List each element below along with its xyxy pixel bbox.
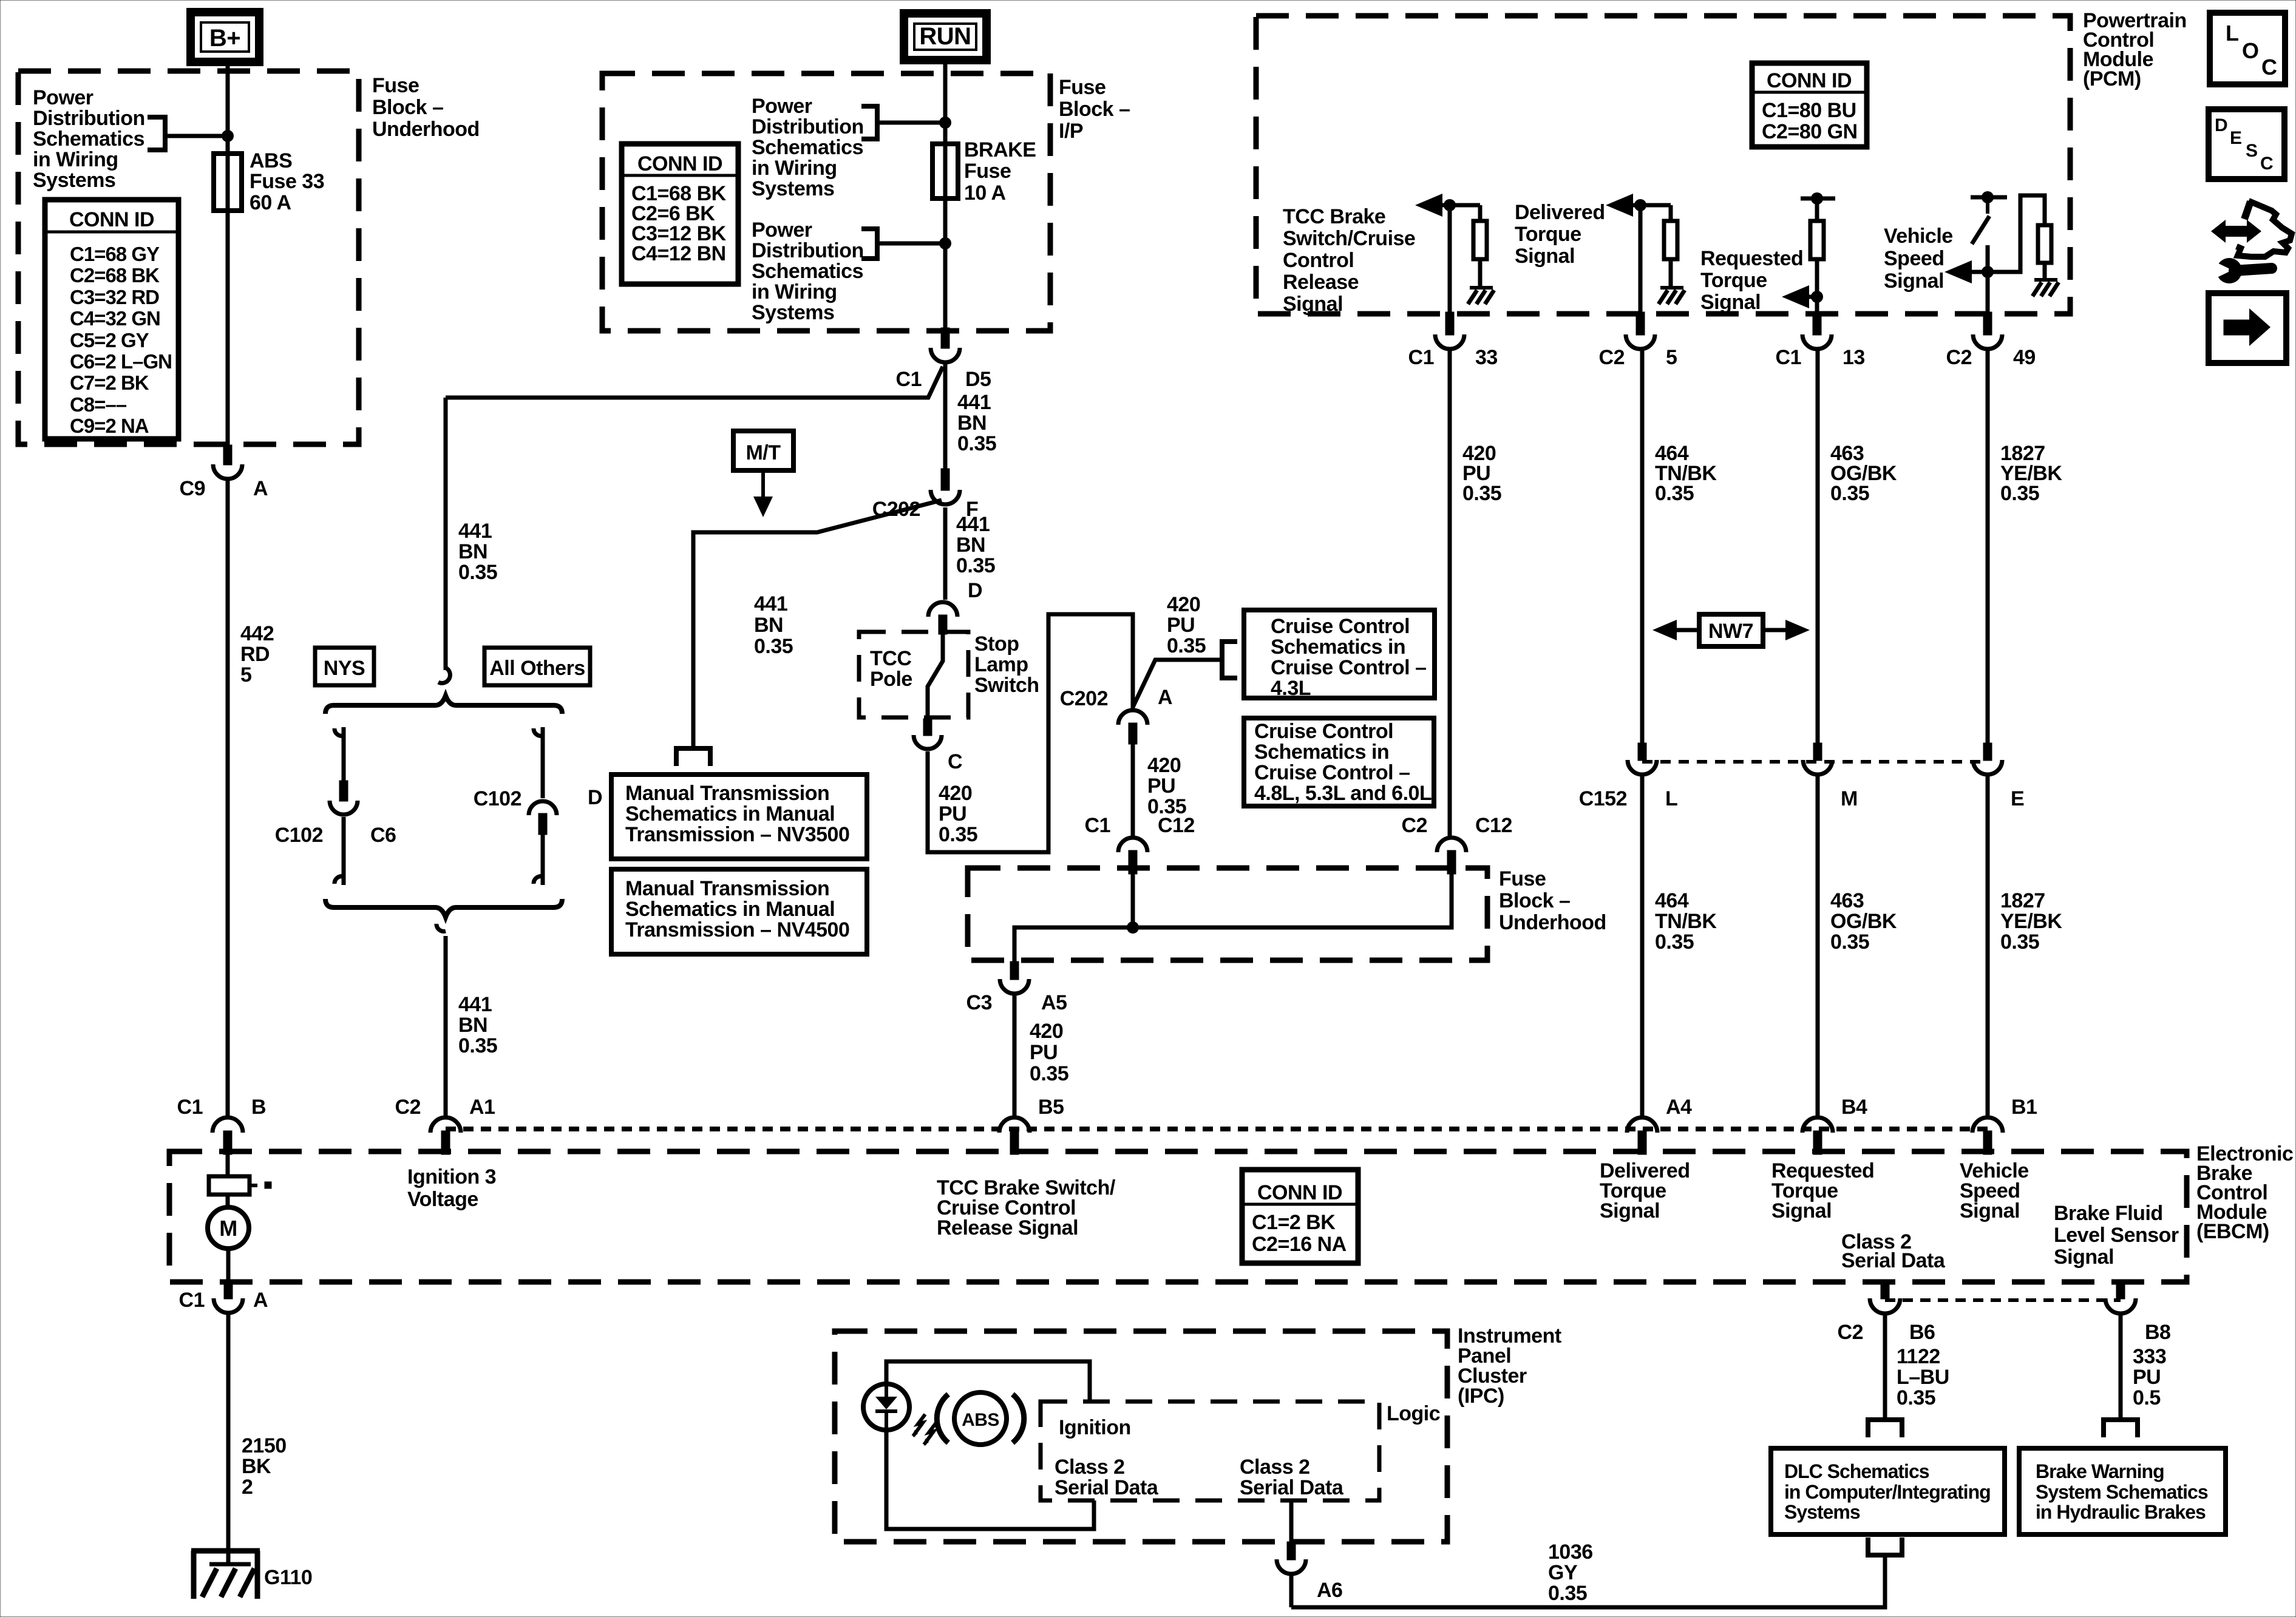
svg-text:BRAKE: BRAKE [964,138,1036,161]
svg-text:in Wiring: in Wiring [33,148,118,171]
svg-text:BN: BN [458,1014,487,1037]
svg-text:D: D [968,579,982,602]
svg-text:420: 420 [1030,1020,1063,1043]
svg-text:2150: 2150 [242,1434,287,1457]
svg-text:4.8L, 5.3L and 6.0L: 4.8L, 5.3L and 6.0L [1254,782,1432,805]
svg-text:Cruise Control –: Cruise Control – [1271,656,1426,679]
bracket to DLC box [1866,1417,1904,1422]
fuse block I/P dashed box [602,73,1050,331]
forward arrow box [2209,293,2286,363]
connector /B8 EBCM bottom [2116,1282,2125,1299]
connector A6 [1287,1542,1296,1560]
connector C1/D5 [941,328,949,348]
IPC indicator loop [886,1361,1090,1402]
svg-text:B+: B+ [209,25,240,52]
svg-text:(PCM): (PCM) [2083,67,2141,90]
ground (TCC signal) [1470,286,1493,290]
svg-text:0.35: 0.35 [1548,1582,1587,1605]
indicator flash arrows [913,1414,925,1436]
svg-text:Distribution: Distribution [33,107,145,130]
wire 1036 GY 0.35 [1291,1558,1885,1607]
svg-text:Block –: Block – [1059,98,1130,121]
svg-text:Underhood: Underhood [1499,911,1606,934]
svg-text:Fuse: Fuse [372,74,419,97]
svg-text:C9=2 NA: C9=2 NA [70,415,149,437]
svg-text:A5: A5 [1041,991,1067,1014]
svg-text:A: A [1158,686,1172,709]
wire 441 BN 0.35 (F to D) [943,507,948,600]
bracket to power distribution schematics [163,115,168,152]
wire RUN down [943,60,948,328]
branch wire down to NYS split [444,398,448,670]
svg-text:Cruise Control: Cruise Control [1271,615,1410,638]
svg-text:441: 441 [957,391,991,414]
svg-text:Level Sensor: Level Sensor [2054,1224,2179,1247]
svg-text:0.35: 0.35 [458,1034,497,1057]
connector C9/A [223,445,232,465]
PCM vehicle speed circuit with switch [1971,195,2007,200]
svg-text:C1=2 BK: C1=2 BK [1252,1211,1336,1234]
svg-text:C102: C102 [275,824,323,847]
svg-text:C2: C2 [1599,346,1625,369]
svg-text:C2: C2 [1838,1321,1863,1344]
svg-text:C1: C1 [896,368,922,391]
svg-text:in Wiring: in Wiring [752,157,837,180]
svg-text:B5: B5 [1038,1096,1064,1119]
svg-text:C202: C202 [1060,687,1108,710]
svg-text:0.5: 0.5 [2133,1386,2161,1409]
svg-text:TCC: TCC [870,647,911,670]
svg-text:10 A: 10 A [964,181,1006,205]
connector C152/E [1983,743,1992,761]
svg-text:Schematics: Schematics [33,127,144,151]
svg-text:Signal: Signal [1283,293,1343,316]
EBCM top dotted connector line [446,1127,1988,1131]
CONN ID table (EBCM) [1242,1170,1358,1263]
svg-text:PU: PU [1030,1041,1058,1064]
svg-text:441: 441 [956,513,990,536]
svg-text:Serial Data: Serial Data [1055,1476,1159,1499]
svg-text:B: B [251,1096,266,1119]
svg-text:C1: C1 [1408,346,1434,369]
svg-text:GY: GY [1548,1561,1578,1584]
svg-text:13: 13 [1843,346,1865,369]
svg-text:Signal: Signal [1960,1199,2020,1222]
svg-text:Pole: Pole [870,668,912,691]
svg-text:RD: RD [240,643,270,666]
svg-text:C152: C152 [1579,787,1627,810]
connector C1/A EBCM bottom [224,1282,233,1299]
svg-text:Requested: Requested [1700,247,1803,270]
svg-text:B6: B6 [1909,1321,1935,1344]
svg-text:Manual Transmission: Manual Transmission [625,877,829,900]
svg-text:B8: B8 [2145,1321,2170,1344]
motor M [208,1207,249,1249]
wire 1827 YE/BK upper [1986,351,1990,743]
svg-text:0.35: 0.35 [1655,931,1694,954]
svg-text:Distribution: Distribution [752,115,864,138]
svg-text:YE/BK: YE/BK [2000,910,2062,933]
connector D [928,602,957,617]
junction dot B+ [222,130,234,142]
PCM dashed box [1256,16,2070,314]
svg-text:S: S [2246,141,2258,161]
wire 333 PU 0.5 [2119,1315,2123,1419]
svg-text:TN/BK: TN/BK [1655,910,1717,933]
svg-text:Cruise Control –: Cruise Control – [1254,761,1410,784]
solenoid [209,1176,250,1195]
svg-text:C12: C12 [1475,814,1512,837]
svg-text:441: 441 [458,993,492,1016]
svg-text:Ignition 3: Ignition 3 [407,1165,496,1188]
svg-text:Signal: Signal [1700,291,1761,314]
NW7 crossing marker [1652,620,1677,640]
svg-text:C2=80 GN: C2=80 GN [1762,120,1858,143]
wire 1827 YE/BK lower [1986,776,1990,1116]
junction dot bus [1127,921,1139,934]
hook below merge [436,924,446,931]
svg-text:C8=––: C8=–– [70,393,127,416]
svg-text:420: 420 [939,782,972,805]
wire 441 BN 0.35 to A1 [444,936,448,1117]
svg-text:1122: 1122 [1897,1345,1940,1368]
svg-text:420: 420 [1167,593,1200,616]
connector C2/B6 EBCM bottom [1881,1282,1889,1299]
svg-text:C2=16 NA: C2=16 NA [1252,1233,1347,1256]
svg-text:464: 464 [1655,889,1689,912]
svg-text:C12: C12 [1158,814,1195,837]
svg-text:C1: C1 [1085,814,1110,837]
internal bus [1131,874,1135,927]
svg-text:Systems: Systems [752,301,834,324]
svg-text:Power: Power [33,86,93,109]
svg-text:Fuse: Fuse [964,160,1011,183]
svg-text:CONN ID: CONN ID [1767,69,1852,92]
connector C102/D [529,801,557,815]
svg-text:C1: C1 [177,1096,203,1119]
svg-text:Block –: Block – [372,96,443,119]
svg-text:A6: A6 [1317,1579,1342,1602]
svg-text:(IPC): (IPC) [1458,1385,1504,1408]
svg-text:Power: Power [752,95,812,118]
svg-text:C3: C3 [966,991,992,1014]
svg-text:Ignition: Ignition [1059,1416,1131,1439]
svg-text:Class 2: Class 2 [1240,1456,1310,1479]
svg-text:BK: BK [242,1455,271,1478]
svg-text:441: 441 [458,520,492,543]
PCM requested torque circuit [1801,197,1835,201]
svg-text:Logic: Logic [1387,1402,1440,1425]
svg-text:0.35: 0.35 [1830,931,1869,954]
wire 442 RD 5 [226,481,230,1117]
svg-text:Schematics in: Schematics in [1271,636,1405,659]
cruise control 4.3L box [1244,610,1435,698]
svg-text:Switch: Switch [974,674,1039,697]
svg-text:in Hydraulic Brakes: in Hydraulic Brakes [2036,1501,2206,1523]
EBCM dashed box [169,1151,2187,1282]
svg-text:Underhood: Underhood [372,118,480,141]
svg-text:441: 441 [754,592,787,615]
svg-text:C4=32 GN: C4=32 GN [70,307,160,330]
wire bracket to junction [165,134,228,138]
svg-text:Fuse: Fuse [1499,867,1546,890]
cruise control 4.8/5.3/6.0 box [1244,718,1434,806]
CONN ID table (I/P fuse block) [622,144,738,284]
DESC legend box [2209,109,2284,179]
svg-text:Vehicle: Vehicle [1884,225,1953,248]
connector C2/C12 (right) [1437,838,1466,852]
svg-text:Block –: Block – [1499,889,1570,912]
svg-text:E: E [2011,787,2024,810]
svg-text:M/T: M/T [746,441,781,464]
svg-text:B4: B4 [1841,1096,1867,1119]
DLC schematics box [1771,1448,2005,1534]
svg-text:Signal: Signal [1600,1199,1660,1222]
svg-text:Systems: Systems [752,177,834,200]
ground (vehicle speed) [2034,278,2057,282]
svg-text:0.35: 0.35 [2000,931,2039,954]
wire 420 PU 0.35 (A to C12) [1131,744,1135,836]
connector C2/5 PCM bottom [1636,312,1645,335]
wire 420 PU 0.35 (33 to C12) [1448,351,1452,836]
svg-text:O: O [2242,38,2259,63]
fuse block underhood bottom dashed box [968,868,1487,960]
svg-text:C5=2 GY: C5=2 GY [70,329,149,351]
connector C202/A [1118,710,1147,725]
All Others branch wire [534,728,543,736]
svg-text:0.35: 0.35 [956,554,995,577]
svg-text:60 A: 60 A [250,191,291,214]
svg-text:Schematics: Schematics [752,260,863,283]
svg-text:C3=32 RD: C3=32 RD [70,286,159,308]
svg-text:Signal: Signal [1515,245,1575,268]
svg-text:0.35: 0.35 [1030,1062,1068,1085]
bracket to manual transmission boxes [674,746,713,751]
svg-text:Transmission – NV3500: Transmission – NV3500 [625,823,849,846]
connector C3/A5 [1010,961,1019,980]
svg-text:C4=12 BN: C4=12 BN [631,242,726,265]
svg-text:D: D [2215,115,2227,135]
svg-text:5: 5 [240,663,251,686]
svg-text:All Others: All Others [489,657,585,680]
ground G110 [191,1548,260,1554]
svg-text:0.35: 0.35 [1655,482,1694,505]
wire to cruise 4.3L bracket [1133,660,1222,707]
svg-text:ABS: ABS [962,1410,999,1430]
svg-text:Torque: Torque [1515,223,1581,246]
PCM TCC brake switch signal circuit [1415,194,1442,217]
EBCM pump motor branch [226,1154,230,1176]
ground (delivered torque) [1660,286,1683,290]
svg-text:(EBCM): (EBCM) [2196,1220,2269,1243]
NYS branch wire [335,728,344,736]
wire 1122 L-BU 0.35 [1883,1315,1887,1419]
svg-text:C: C [2260,154,2273,174]
svg-text:333: 333 [2133,1345,2166,1368]
bracket lower [875,226,880,261]
svg-text:CONN ID: CONN ID [1257,1181,1342,1204]
svg-text:Brake Fluid: Brake Fluid [2054,1202,2163,1225]
svg-text:I/P: I/P [1059,120,1083,143]
svg-text:C1=80 BU: C1=80 BU [1762,99,1856,122]
svg-text:0.35: 0.35 [1897,1386,1935,1409]
All Others box [484,648,590,685]
brake warning schematics box [2019,1448,2226,1534]
svg-text:0.35: 0.35 [754,635,793,658]
bracket upper [875,104,880,141]
junction dot lower [939,237,951,249]
svg-text:Delivered: Delivered [1515,201,1605,224]
svg-text:C2: C2 [1402,814,1427,837]
svg-text:PU: PU [1167,614,1195,637]
svg-text:PU: PU [939,802,966,825]
svg-text:C: C [948,750,962,773]
connector /B4 EBCM top [1802,1117,1833,1133]
hook above split [438,668,450,683]
svg-text:442: 442 [240,622,274,645]
wire 441 BN 0.35 (D5 to F) [943,364,948,469]
IPC dashed box [835,1331,1447,1542]
svg-text:Serial Data: Serial Data [1841,1249,1946,1272]
LOC legend box [2210,13,2285,84]
svg-text:Schematics in: Schematics in [1254,741,1389,764]
NYS box [315,648,374,685]
svg-text:Signal: Signal [2054,1246,2114,1269]
connector C1/C12 [1118,838,1147,852]
M/T box [733,431,793,470]
svg-text:A4: A4 [1666,1096,1692,1119]
svg-text:Schematics: Schematics [752,136,863,159]
svg-text:Fuse 33: Fuse 33 [250,170,324,193]
connector /B1 EBCM top [1972,1117,2003,1133]
manual transmission NV4500 box [611,869,867,954]
connector C2/A1 EBCM top [430,1117,461,1133]
svg-text:Voltage: Voltage [407,1188,478,1211]
svg-text:0.35: 0.35 [957,432,996,455]
svg-text:C2=68 BK: C2=68 BK [70,264,160,286]
C152 dotted connector line [1642,760,1988,764]
svg-text:4.3L: 4.3L [1271,677,1311,700]
svg-text:Schematics in Manual: Schematics in Manual [625,802,835,825]
svg-text:in Computer/Integrating: in Computer/Integrating [1784,1481,1991,1503]
svg-text:PU: PU [1147,775,1175,798]
svg-text:M: M [219,1216,237,1241]
svg-text:0.35: 0.35 [1462,482,1501,505]
svg-text:RUN: RUN [919,23,971,50]
wire logic to A6 [1289,1500,1294,1542]
svg-text:Release Signal: Release Signal [937,1216,1078,1239]
svg-text:BN: BN [458,540,487,563]
svg-text:A: A [253,477,268,500]
svg-text:C2: C2 [395,1096,421,1119]
svg-text:Systems: Systems [1784,1501,1860,1523]
junction dot upper [939,117,951,129]
CONN ID table (underhood fuse block) [45,200,178,439]
wire M/T branch [693,500,942,746]
svg-text:DLC Schematics: DLC Schematics [1784,1460,1929,1482]
PCM delivered torque circuit [1606,194,1633,217]
svg-text:0.35: 0.35 [1167,634,1206,657]
connector C1/13 PCM bottom [1813,312,1821,335]
svg-text:D: D [588,786,602,809]
wire 463 OG/BK upper [1816,351,1820,743]
svg-text:NW7: NW7 [1708,620,1753,643]
svg-text:420: 420 [1147,754,1181,777]
connector C202/F [941,469,949,490]
TCC pole dashed box [859,632,968,717]
svg-text:Cruise Control: Cruise Control [1254,720,1393,743]
svg-text:Serial Data: Serial Data [1240,1476,1344,1499]
svg-text:L: L [1665,787,1677,810]
connector C102/C6 [339,781,348,801]
hand and wrench icon [2211,220,2261,243]
wire 420 PU 0.35 (A5 to B5) [1013,995,1017,1116]
CONN ID table (PCM) [1752,63,1867,147]
svg-text:0.35: 0.35 [939,823,977,846]
svg-text:Switch/Cruise: Switch/Cruise [1283,227,1415,250]
connector C2/49 PCM bottom [1983,312,1992,335]
svg-text:A1: A1 [469,1096,495,1119]
svg-text:1827: 1827 [2000,889,2045,912]
connector C1/B EBCM top [212,1117,243,1133]
connector /B5 EBCM top [999,1117,1030,1133]
svg-text:CONN ID: CONN ID [69,208,154,231]
svg-text:OG/BK: OG/BK [1830,910,1897,933]
svg-text:0.35: 0.35 [458,561,497,584]
fuse block underhood dashed box [18,71,359,444]
connector C [923,719,932,736]
svg-text:D5: D5 [965,368,991,391]
svg-text:E: E [2230,128,2242,148]
svg-text:C7=2 BK: C7=2 BK [70,371,149,394]
B6/B8 dotted connector line [1885,1298,2121,1302]
svg-text:Release: Release [1283,271,1359,294]
bracket cruise 4.3L [1220,639,1224,680]
svg-text:463: 463 [1830,889,1864,912]
svg-text:BN: BN [956,534,985,557]
fuse ABS Fuse 33 60A [214,154,242,211]
connector C1/33 PCM bottom [1445,312,1454,335]
svg-text:in Wiring: in Wiring [752,280,837,303]
lower brace merge [325,899,562,917]
svg-text:Schematics in Manual: Schematics in Manual [625,898,835,921]
svg-text:Transmission – NV4500: Transmission – NV4500 [625,918,849,941]
wire 464 TN/BK upper [1640,351,1645,743]
svg-text:Torque: Torque [1700,269,1767,292]
svg-text:1036: 1036 [1548,1541,1593,1564]
svg-text:L: L [2226,21,2239,46]
svg-text:C9: C9 [180,477,205,500]
bracket below DLC box [1866,1553,1904,1558]
wire 464 TN/BK lower [1640,776,1645,1116]
svg-text:Speed: Speed [1884,247,1944,270]
svg-text:PU: PU [2133,1366,2161,1389]
svg-text:System Schematics: System Schematics [2036,1481,2208,1503]
svg-text:ABS: ABS [250,149,292,172]
power terminal B+ [191,12,259,62]
ignition terminal RUN [904,13,987,60]
svg-text:C2: C2 [1946,346,1972,369]
bracket to brake warning box [2101,1417,2140,1422]
svg-text:TCC Brake: TCC Brake [1283,205,1385,228]
svg-text:0.35: 0.35 [1830,482,1869,505]
ABS indicator LED [863,1384,909,1430]
stop lamp switch blade [928,634,943,719]
wire 463 OG/BK lower [1816,776,1820,1116]
svg-text:Signal: Signal [1884,269,1944,293]
connector C152/M [1813,743,1822,761]
manual transmission NV3500 box [611,775,867,859]
